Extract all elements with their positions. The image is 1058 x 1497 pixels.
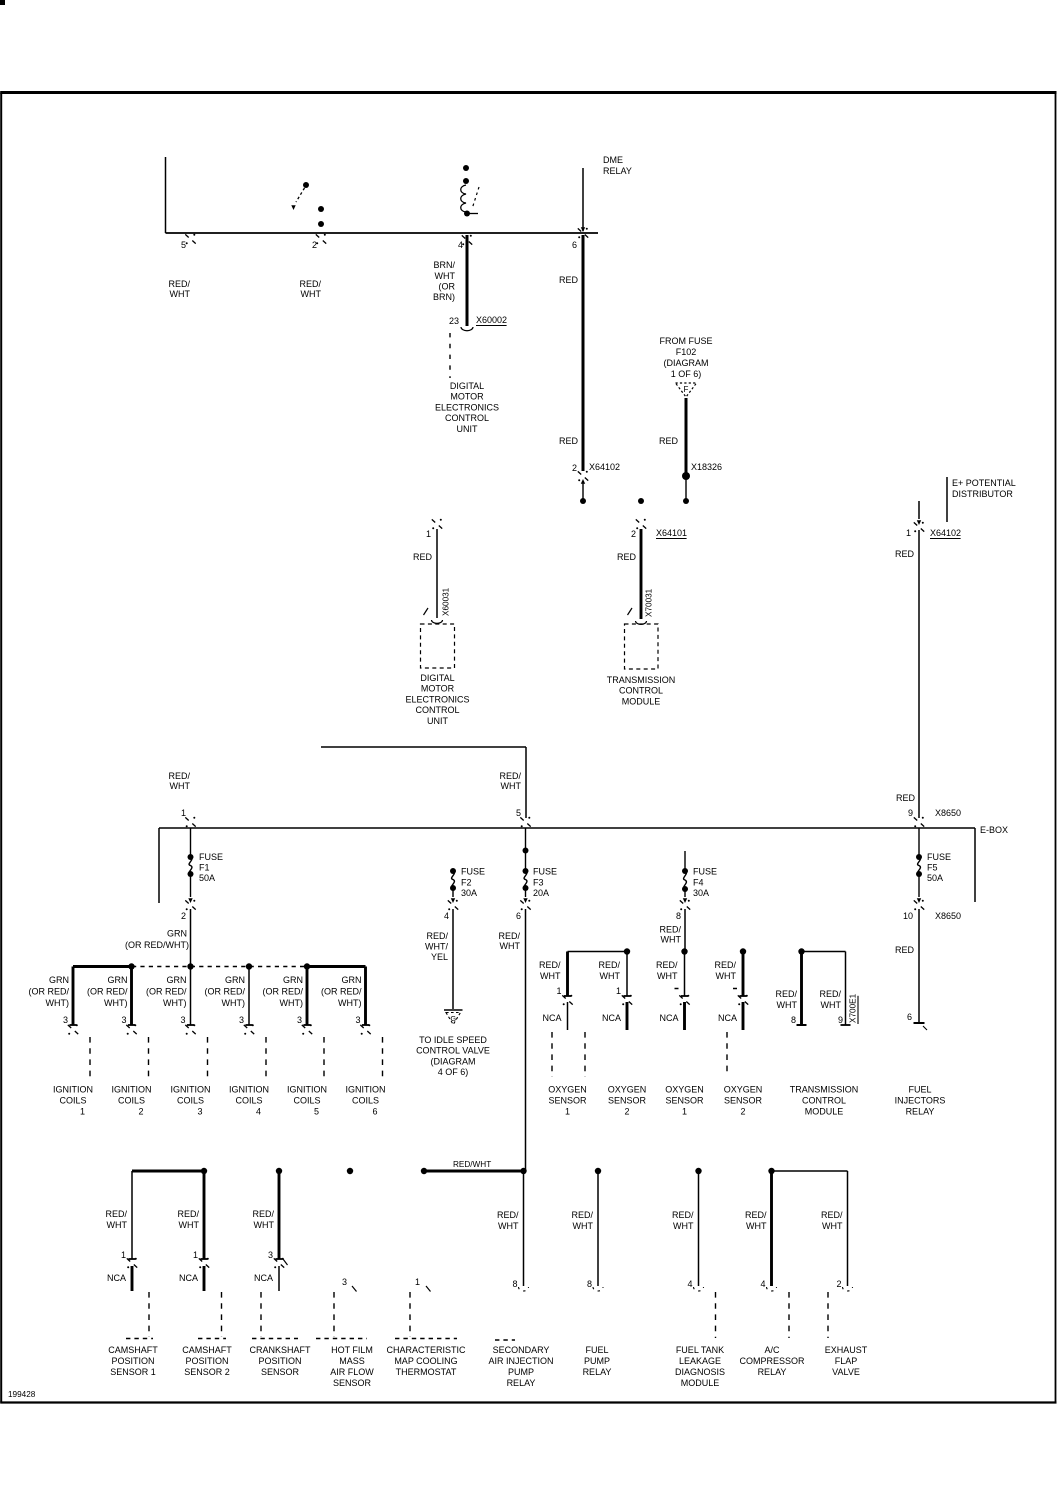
svg-text:LEAKAGE: LEAKAGE bbox=[679, 1356, 721, 1366]
svg-text:CONTROL: CONTROL bbox=[415, 705, 459, 715]
svg-text:X18326: X18326 bbox=[691, 462, 722, 472]
svg-text:RED: RED bbox=[895, 549, 915, 559]
svg-text:COILS: COILS bbox=[118, 1096, 145, 1106]
svg-text:WHT: WHT bbox=[821, 1000, 842, 1010]
svg-text:4: 4 bbox=[444, 911, 449, 921]
svg-text:X70031: X70031 bbox=[645, 588, 654, 617]
svg-text:23: 23 bbox=[449, 316, 459, 326]
svg-text:COILS: COILS bbox=[352, 1096, 379, 1106]
svg-text:IGNITION: IGNITION bbox=[112, 1085, 152, 1095]
svg-text:WHT: WHT bbox=[107, 1220, 128, 1230]
svg-text:WHT): WHT) bbox=[222, 998, 246, 1008]
svg-text:1 OF 6): 1 OF 6) bbox=[671, 369, 702, 379]
svg-text:E+ POTENTIAL: E+ POTENTIAL bbox=[952, 478, 1016, 488]
svg-text:E-BOX: E-BOX bbox=[980, 825, 1008, 835]
svg-text:RELAY: RELAY bbox=[758, 1367, 787, 1377]
svg-text:RED/: RED/ bbox=[299, 279, 321, 289]
svg-text:(OR RED/: (OR RED/ bbox=[263, 987, 304, 997]
svg-text:10: 10 bbox=[903, 911, 913, 921]
svg-text:3: 3 bbox=[121, 1015, 126, 1025]
svg-text:THERMOSTAT: THERMOSTAT bbox=[396, 1367, 457, 1377]
svg-text:RED/: RED/ bbox=[499, 771, 521, 781]
svg-text:RED/: RED/ bbox=[775, 989, 797, 999]
svg-text:IGNITION: IGNITION bbox=[53, 1085, 93, 1095]
svg-text:GRN: GRN bbox=[49, 975, 69, 985]
svg-text:OXYGEN: OXYGEN bbox=[548, 1085, 587, 1095]
svg-text:30A: 30A bbox=[693, 888, 709, 898]
svg-text:FUEL: FUEL bbox=[585, 1345, 608, 1355]
svg-text:1: 1 bbox=[906, 528, 911, 538]
svg-text:1: 1 bbox=[181, 808, 186, 818]
svg-text:RED: RED bbox=[559, 275, 579, 285]
svg-text:3: 3 bbox=[342, 1277, 347, 1287]
svg-text:WHT): WHT) bbox=[104, 998, 128, 1008]
svg-text:(DIAGRAM: (DIAGRAM bbox=[664, 358, 709, 368]
svg-text:MOTOR: MOTOR bbox=[421, 684, 455, 694]
svg-text:WHT: WHT bbox=[500, 941, 521, 951]
svg-text:IGNITION: IGNITION bbox=[287, 1085, 327, 1095]
svg-text:9: 9 bbox=[838, 1015, 843, 1025]
svg-text:WHT: WHT bbox=[435, 271, 456, 281]
svg-text:1: 1 bbox=[426, 529, 431, 539]
svg-text:WHT): WHT) bbox=[280, 998, 304, 1008]
svg-text:OXYGEN: OXYGEN bbox=[665, 1085, 704, 1095]
svg-text:IGNITION: IGNITION bbox=[229, 1085, 269, 1095]
svg-text:MODULE: MODULE bbox=[681, 1378, 720, 1388]
svg-text:RED/: RED/ bbox=[252, 1209, 274, 1219]
svg-text:X64101: X64101 bbox=[656, 528, 687, 538]
svg-text:GRN: GRN bbox=[283, 975, 303, 985]
svg-text:SENSOR: SENSOR bbox=[608, 1096, 647, 1106]
svg-text:1: 1 bbox=[193, 1250, 198, 1260]
svg-text:RED: RED bbox=[895, 945, 915, 955]
svg-text:CHARACTERISTIC: CHARACTERISTIC bbox=[386, 1345, 466, 1355]
svg-text:IGNITION: IGNITION bbox=[346, 1085, 386, 1095]
svg-text:WHT: WHT bbox=[573, 1221, 594, 1231]
svg-text:COILS: COILS bbox=[293, 1096, 320, 1106]
svg-text:RED/: RED/ bbox=[426, 931, 448, 941]
svg-text:6: 6 bbox=[907, 1012, 912, 1022]
svg-text:WHT): WHT) bbox=[46, 998, 70, 1008]
svg-text:WHT: WHT bbox=[179, 1220, 200, 1230]
svg-text:WHT/: WHT/ bbox=[425, 942, 448, 952]
svg-text:WHT: WHT bbox=[777, 1000, 798, 1010]
svg-text:OXYGEN: OXYGEN bbox=[724, 1085, 763, 1095]
svg-text:AIR INJECTION: AIR INJECTION bbox=[488, 1356, 553, 1366]
svg-text:CRANKSHAFT: CRANKSHAFT bbox=[249, 1345, 311, 1355]
svg-text:8: 8 bbox=[676, 911, 681, 921]
svg-text:1: 1 bbox=[415, 1277, 420, 1287]
svg-text:F3: F3 bbox=[533, 878, 544, 888]
svg-text:PUMP: PUMP bbox=[508, 1367, 534, 1377]
svg-text:POSITION: POSITION bbox=[185, 1356, 228, 1366]
svg-text:RED/: RED/ bbox=[498, 931, 520, 941]
svg-text:EXHAUST: EXHAUST bbox=[825, 1345, 868, 1355]
svg-text:CONTROL: CONTROL bbox=[802, 1096, 846, 1106]
svg-text:8: 8 bbox=[587, 1279, 592, 1289]
svg-text:F1: F1 bbox=[199, 863, 210, 873]
svg-text:RED/: RED/ bbox=[672, 1210, 694, 1220]
svg-text:PUMP: PUMP bbox=[584, 1356, 610, 1366]
svg-text:DIGITAL: DIGITAL bbox=[420, 673, 454, 683]
svg-text:30A: 30A bbox=[461, 888, 477, 898]
svg-text:199428: 199428 bbox=[8, 1390, 36, 1399]
svg-text:RED: RED bbox=[659, 436, 679, 446]
svg-text:SENSOR 1: SENSOR 1 bbox=[110, 1367, 156, 1377]
svg-text:MASS: MASS bbox=[339, 1356, 365, 1366]
svg-text:1: 1 bbox=[80, 1107, 85, 1117]
svg-text:COILS: COILS bbox=[59, 1096, 86, 1106]
svg-text:(OR RED/: (OR RED/ bbox=[321, 987, 362, 997]
svg-text:20A: 20A bbox=[533, 888, 549, 898]
svg-text:COILS: COILS bbox=[177, 1096, 204, 1106]
svg-text:2: 2 bbox=[836, 1279, 841, 1289]
svg-text:WHT: WHT bbox=[170, 289, 191, 299]
svg-text:ELECTRONICS: ELECTRONICS bbox=[435, 402, 499, 412]
svg-text:WHT: WHT bbox=[501, 781, 522, 791]
svg-text:INJECTORS: INJECTORS bbox=[895, 1096, 946, 1106]
svg-text:CONTROL VALVE: CONTROL VALVE bbox=[416, 1046, 490, 1056]
svg-text:FUEL: FUEL bbox=[908, 1085, 931, 1095]
svg-text:6: 6 bbox=[372, 1107, 377, 1117]
svg-text:RED/: RED/ bbox=[656, 960, 678, 970]
svg-text:AIR FLOW: AIR FLOW bbox=[330, 1367, 374, 1377]
svg-text:RED/: RED/ bbox=[598, 960, 620, 970]
svg-text:CAMSHAFT: CAMSHAFT bbox=[108, 1345, 158, 1355]
svg-text:SECONDARY: SECONDARY bbox=[493, 1345, 550, 1355]
svg-text:2: 2 bbox=[624, 1107, 629, 1117]
svg-text:SENSOR: SENSOR bbox=[665, 1096, 704, 1106]
svg-text:2: 2 bbox=[572, 463, 577, 473]
svg-text:SENSOR: SENSOR bbox=[333, 1378, 372, 1388]
svg-text:SENSOR 2: SENSOR 2 bbox=[184, 1367, 230, 1377]
svg-text:FUSE: FUSE bbox=[927, 852, 951, 862]
svg-text:RED/: RED/ bbox=[539, 960, 561, 970]
svg-text:X64102: X64102 bbox=[930, 528, 961, 538]
svg-text:SENSOR: SENSOR bbox=[261, 1367, 300, 1377]
svg-text:CONTROL: CONTROL bbox=[619, 686, 663, 696]
svg-text:FLAP: FLAP bbox=[835, 1356, 858, 1366]
svg-text:FUEL TANK: FUEL TANK bbox=[676, 1345, 724, 1355]
svg-text:3: 3 bbox=[197, 1107, 202, 1117]
svg-text:WHT: WHT bbox=[498, 1221, 519, 1231]
svg-text:RED/: RED/ bbox=[105, 1209, 127, 1219]
svg-text:NCA: NCA bbox=[602, 1013, 621, 1023]
svg-text:GRN: GRN bbox=[167, 975, 187, 985]
svg-text:NCA: NCA bbox=[542, 1013, 561, 1023]
svg-text:UNIT: UNIT bbox=[427, 716, 448, 726]
svg-text:3: 3 bbox=[297, 1015, 302, 1025]
svg-text:WHT: WHT bbox=[657, 971, 678, 981]
svg-text:FUSE: FUSE bbox=[693, 867, 717, 877]
svg-text:NCA: NCA bbox=[718, 1013, 737, 1023]
svg-text:5: 5 bbox=[516, 808, 521, 818]
svg-text:TRANSMISSION: TRANSMISSION bbox=[607, 675, 676, 685]
svg-text:50A: 50A bbox=[927, 873, 943, 883]
svg-text:6: 6 bbox=[572, 240, 577, 250]
svg-text:RED/: RED/ bbox=[177, 1209, 199, 1219]
svg-text:9: 9 bbox=[908, 808, 913, 818]
svg-text:MODULE: MODULE bbox=[805, 1107, 844, 1117]
svg-text:TO IDLE SPEED: TO IDLE SPEED bbox=[419, 1035, 487, 1045]
svg-text:X60002: X60002 bbox=[476, 315, 507, 325]
svg-text:2: 2 bbox=[740, 1107, 745, 1117]
svg-text:RED: RED bbox=[617, 552, 637, 562]
svg-text:NCA: NCA bbox=[659, 1013, 678, 1023]
svg-text:F2: F2 bbox=[461, 878, 472, 888]
svg-text:WHT: WHT bbox=[254, 1220, 275, 1230]
svg-text:SENSOR: SENSOR bbox=[548, 1096, 587, 1106]
svg-text:X64102: X64102 bbox=[589, 462, 620, 472]
svg-text:DISTRIBUTOR: DISTRIBUTOR bbox=[952, 489, 1013, 499]
svg-text:IGNITION: IGNITION bbox=[171, 1085, 211, 1095]
svg-text:3: 3 bbox=[180, 1015, 185, 1025]
svg-text:MOTOR: MOTOR bbox=[450, 392, 484, 402]
svg-text:6: 6 bbox=[516, 911, 521, 921]
svg-text:8: 8 bbox=[791, 1015, 796, 1025]
svg-text:FROM FUSE: FROM FUSE bbox=[660, 336, 713, 346]
svg-text:4: 4 bbox=[458, 240, 463, 250]
svg-text:BRN): BRN) bbox=[433, 292, 455, 302]
svg-text:TRANSMISSION: TRANSMISSION bbox=[790, 1085, 859, 1095]
svg-text:X8650: X8650 bbox=[935, 911, 961, 921]
svg-text:RED: RED bbox=[896, 793, 916, 803]
svg-text:(OR RED/WHT): (OR RED/WHT) bbox=[125, 940, 189, 950]
svg-text:X8650: X8650 bbox=[935, 808, 961, 818]
svg-text:NCA: NCA bbox=[254, 1273, 273, 1283]
svg-text:DME: DME bbox=[603, 155, 623, 165]
svg-text:X700E1: X700E1 bbox=[849, 993, 858, 1023]
svg-text:RED/: RED/ bbox=[714, 960, 736, 970]
svg-text:POSITION: POSITION bbox=[111, 1356, 154, 1366]
svg-text:BRN/: BRN/ bbox=[433, 260, 455, 270]
svg-text:GRN: GRN bbox=[167, 929, 187, 939]
svg-text:3: 3 bbox=[355, 1015, 360, 1025]
svg-text:YEL: YEL bbox=[431, 952, 448, 962]
svg-text:F5: F5 bbox=[927, 863, 938, 873]
svg-text:5: 5 bbox=[181, 240, 186, 250]
svg-text:RED/: RED/ bbox=[819, 989, 841, 999]
svg-text:1: 1 bbox=[616, 986, 621, 996]
svg-text:3: 3 bbox=[239, 1015, 244, 1025]
svg-text:1: 1 bbox=[565, 1107, 570, 1117]
svg-text:2: 2 bbox=[181, 911, 186, 921]
svg-text:RED/: RED/ bbox=[821, 1210, 843, 1220]
svg-text:(OR: (OR bbox=[439, 282, 456, 292]
svg-text:MODULE: MODULE bbox=[622, 696, 661, 706]
svg-text:CAMSHAFT: CAMSHAFT bbox=[182, 1345, 232, 1355]
svg-text:FUSE: FUSE bbox=[199, 852, 223, 862]
svg-text:RED/: RED/ bbox=[168, 771, 190, 781]
svg-text:F102: F102 bbox=[676, 347, 697, 357]
svg-text:POSITION: POSITION bbox=[258, 1356, 301, 1366]
svg-text:(OR RED/: (OR RED/ bbox=[146, 987, 187, 997]
svg-text:WHT: WHT bbox=[716, 971, 737, 981]
svg-text:(DIAGRAM: (DIAGRAM bbox=[431, 1056, 476, 1066]
svg-text:F: F bbox=[684, 385, 689, 394]
svg-text:4: 4 bbox=[687, 1279, 692, 1289]
svg-text:RED/: RED/ bbox=[497, 1210, 519, 1220]
svg-text:X60031: X60031 bbox=[442, 587, 451, 616]
svg-text:WHT: WHT bbox=[661, 935, 682, 945]
svg-text:(OR RED/: (OR RED/ bbox=[87, 987, 128, 997]
svg-text:WHT: WHT bbox=[673, 1221, 694, 1231]
svg-text:F4: F4 bbox=[693, 878, 704, 888]
svg-text:RELAY: RELAY bbox=[603, 166, 632, 176]
svg-text:A/C: A/C bbox=[764, 1345, 780, 1355]
svg-text:DIGITAL: DIGITAL bbox=[450, 381, 484, 391]
svg-text:WHT: WHT bbox=[822, 1221, 843, 1231]
svg-text:WHT: WHT bbox=[301, 289, 322, 299]
svg-text:2: 2 bbox=[312, 240, 317, 250]
svg-text:(OR RED/: (OR RED/ bbox=[29, 987, 70, 997]
svg-text:2: 2 bbox=[631, 529, 636, 539]
svg-text:RED: RED bbox=[559, 436, 579, 446]
svg-text:UNIT: UNIT bbox=[457, 424, 478, 434]
svg-text:GRN: GRN bbox=[108, 975, 128, 985]
svg-text:8: 8 bbox=[512, 1279, 517, 1289]
svg-text:ELECTRONICS: ELECTRONICS bbox=[405, 694, 469, 704]
svg-text:2: 2 bbox=[138, 1107, 143, 1117]
svg-text:NCA: NCA bbox=[179, 1273, 198, 1283]
svg-text:WHT: WHT bbox=[600, 971, 621, 981]
svg-text:WHT): WHT) bbox=[338, 998, 362, 1008]
svg-text:RED/: RED/ bbox=[659, 925, 681, 935]
svg-text:RED/: RED/ bbox=[168, 279, 190, 289]
svg-text:4: 4 bbox=[256, 1107, 261, 1117]
svg-text:OXYGEN: OXYGEN bbox=[608, 1085, 647, 1095]
svg-text:COMPRESSOR: COMPRESSOR bbox=[739, 1356, 805, 1366]
svg-text:WHT: WHT bbox=[170, 781, 191, 791]
svg-text:RELAY: RELAY bbox=[507, 1378, 536, 1388]
svg-text:FUSE: FUSE bbox=[533, 867, 557, 877]
svg-text:RELAY: RELAY bbox=[906, 1107, 935, 1117]
svg-text:FUSE: FUSE bbox=[461, 867, 485, 877]
svg-text:1: 1 bbox=[121, 1250, 126, 1260]
svg-text:1: 1 bbox=[556, 986, 561, 996]
svg-text:50A: 50A bbox=[199, 873, 215, 883]
svg-text:4 OF 6): 4 OF 6) bbox=[438, 1067, 469, 1077]
svg-text:SENSOR: SENSOR bbox=[724, 1096, 763, 1106]
svg-text:3: 3 bbox=[63, 1015, 68, 1025]
svg-text:RED/: RED/ bbox=[571, 1210, 593, 1220]
svg-text:RELAY: RELAY bbox=[583, 1367, 612, 1377]
svg-text:RED/WHT: RED/WHT bbox=[453, 1160, 491, 1169]
svg-text:WHT: WHT bbox=[540, 971, 561, 981]
svg-text:CONTROL: CONTROL bbox=[445, 413, 489, 423]
svg-text:4: 4 bbox=[760, 1279, 765, 1289]
svg-text:WHT): WHT) bbox=[163, 998, 187, 1008]
svg-text:(OR RED/: (OR RED/ bbox=[205, 987, 246, 997]
svg-text:WHT: WHT bbox=[746, 1221, 767, 1231]
svg-text:G: G bbox=[450, 1014, 456, 1023]
svg-text:1: 1 bbox=[682, 1107, 687, 1117]
svg-text:HOT FILM: HOT FILM bbox=[331, 1345, 373, 1355]
svg-text:RED: RED bbox=[413, 552, 433, 562]
svg-text:DIAGNOSIS: DIAGNOSIS bbox=[675, 1367, 725, 1377]
svg-text:GRN: GRN bbox=[342, 975, 362, 985]
svg-text:MAP COOLING: MAP COOLING bbox=[394, 1356, 457, 1366]
svg-text:NCA: NCA bbox=[107, 1273, 126, 1283]
svg-text:5: 5 bbox=[314, 1107, 319, 1117]
svg-text:RED/: RED/ bbox=[745, 1210, 767, 1220]
svg-text:3: 3 bbox=[268, 1250, 273, 1260]
svg-text:COILS: COILS bbox=[235, 1096, 262, 1106]
svg-text:VALVE: VALVE bbox=[832, 1367, 860, 1377]
svg-text:GRN: GRN bbox=[225, 975, 245, 985]
